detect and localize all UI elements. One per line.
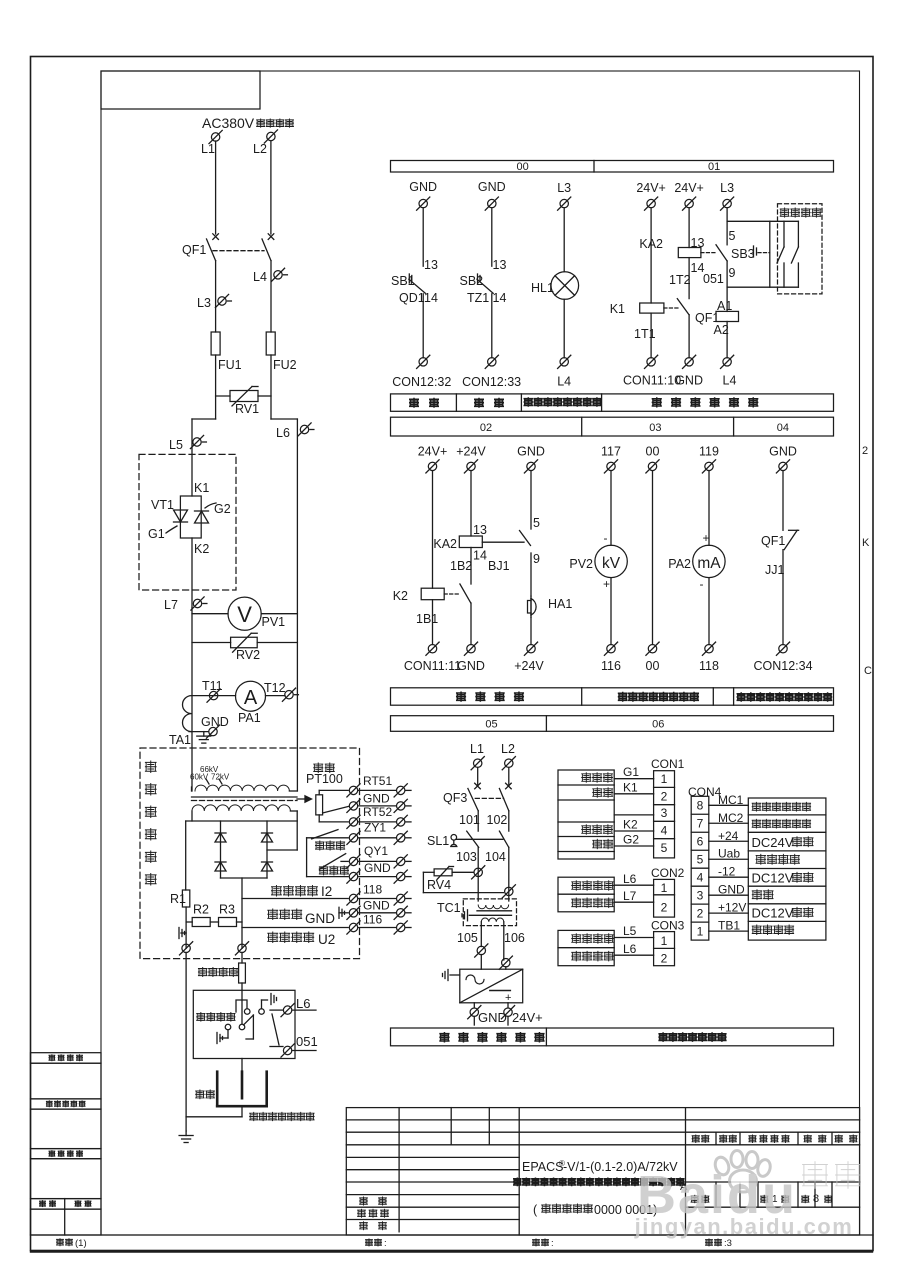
wire FU2 to RV1 node xyxy=(270,355,272,419)
svg-text:TC1: TC1 xyxy=(437,901,461,915)
svg-text:K1: K1 xyxy=(623,781,638,795)
sidebar box row 4 label cell 日期 签字 xyxy=(31,1199,102,1210)
svg-text:EPACS: EPACS xyxy=(522,1160,563,1174)
trigger table A xyxy=(558,770,614,859)
wire FU1 to RV1 node xyxy=(215,355,217,419)
svg-text:HA1: HA1 xyxy=(548,597,572,611)
wire col5 upper xyxy=(688,208,690,248)
svg-text:L2: L2 xyxy=(501,742,515,756)
contact L6 xyxy=(283,1006,291,1014)
svg-text:+: + xyxy=(603,577,610,591)
core arrow to PT100 xyxy=(297,798,305,800)
terminal col1 top xyxy=(419,199,427,207)
title block vertical rules xyxy=(398,1108,400,1232)
svg-text:105: 105 xyxy=(457,931,478,945)
svg-text:8: 8 xyxy=(697,799,704,813)
svg-text:1T2: 1T2 xyxy=(669,273,691,287)
wire col5 mid xyxy=(688,258,690,299)
svg-text:GND: GND xyxy=(769,445,797,459)
bottom strip line xyxy=(31,1234,874,1236)
wire 102 down xyxy=(508,811,510,831)
svg-text:PA1: PA1 xyxy=(238,711,261,725)
svg-text:L1: L1 xyxy=(470,742,484,756)
wire c5 full xyxy=(652,471,654,645)
svg-text:2: 2 xyxy=(862,445,868,457)
terminal col3 top xyxy=(560,199,568,207)
label 取样地 GND xyxy=(268,909,278,920)
svg-text:T11: T11 xyxy=(202,679,223,693)
svg-text:L3: L3 xyxy=(557,181,571,195)
svg-text:SB3: SB3 xyxy=(731,247,755,261)
resistor R2 xyxy=(186,921,192,923)
svg-text:24V+: 24V+ xyxy=(674,181,704,195)
svg-text:K1: K1 xyxy=(194,481,209,495)
relay coil K1 xyxy=(640,303,664,313)
wire 103 down xyxy=(477,847,479,901)
svg-text:RV4: RV4 xyxy=(427,878,451,892)
wire col3 lower xyxy=(563,299,565,358)
svg-text:L5: L5 xyxy=(169,438,183,452)
wire c7 upper xyxy=(782,471,784,531)
svg-text:118: 118 xyxy=(699,659,719,673)
svg-text:01: 01 xyxy=(708,161,720,173)
ammeter PA2 xyxy=(693,545,725,577)
svg-text:-12: -12 xyxy=(718,865,736,879)
label 现场设备示意图 xyxy=(250,1112,258,1121)
wire col4 lower xyxy=(650,313,652,358)
zone bar 02 03 04 xyxy=(391,417,834,436)
wire c6 lower xyxy=(708,578,710,645)
outer border bottom thick edge xyxy=(31,1250,872,1252)
title block label 批准 xyxy=(360,1222,368,1230)
wire L7 con2 xyxy=(614,901,653,903)
switch bracket xyxy=(236,1000,247,1012)
wire col6 lower xyxy=(726,322,728,358)
gas relay vertical link xyxy=(306,838,308,877)
svg-text:L4: L4 xyxy=(723,374,737,388)
svg-text:SL1: SL1 xyxy=(427,834,449,848)
svg-text:RT52: RT52 xyxy=(363,805,392,819)
terminal row 118 xyxy=(349,894,357,902)
title header text 日期 xyxy=(835,1135,842,1143)
thyristor VT1 body xyxy=(180,496,201,538)
TC1 secondary winding xyxy=(481,918,504,922)
primary winding xyxy=(191,787,193,791)
svg-text:L3: L3 xyxy=(197,296,211,310)
svg-text:GND: GND xyxy=(305,911,335,926)
wire 104 down xyxy=(508,847,510,901)
svg-text:06: 06 xyxy=(652,719,664,731)
disconnect switch box 隔离开关 xyxy=(193,990,295,1058)
terminal col5 bottom xyxy=(685,358,693,366)
bridge output wire down xyxy=(241,878,243,948)
svg-text:V: V xyxy=(237,602,252,627)
svg-text:G1: G1 xyxy=(148,527,165,541)
vertical label 硅整流变压器 xyxy=(145,761,156,773)
svg-text:14: 14 xyxy=(424,291,438,305)
svg-text:CON11:10: CON11:10 xyxy=(623,374,681,388)
title header text 签名 xyxy=(804,1135,811,1143)
thyristor block dashed box xyxy=(139,454,236,590)
svg-text:8: 8 xyxy=(813,1193,819,1205)
current transformer TA1 xyxy=(183,696,192,732)
svg-text:1: 1 xyxy=(661,772,668,786)
wire switch to field plates xyxy=(241,1059,243,1072)
secondary left lead and top rail xyxy=(191,811,193,821)
svg-text:GND: GND xyxy=(363,792,390,806)
terminal L2 xyxy=(267,132,275,140)
svg-text:ZY1: ZY1 xyxy=(364,821,386,835)
svg-text:RV2: RV2 xyxy=(236,648,260,662)
svg-text:G2: G2 xyxy=(214,502,231,516)
svg-text:L2: L2 xyxy=(253,142,267,156)
svg-text:24V+: 24V+ xyxy=(636,181,666,195)
silicon rectifier transformer dashed box xyxy=(140,748,360,959)
svg-text:FU1: FU1 xyxy=(218,358,242,372)
svg-text:05: 05 xyxy=(485,719,497,731)
svg-text:CON12:34: CON12:34 xyxy=(753,659,812,673)
description 脉冲信号输入 row1 xyxy=(752,802,760,811)
svg-text:+12V: +12V xyxy=(718,901,746,915)
fuse FU2 xyxy=(266,332,275,355)
damping resistor 阻尼电阻 xyxy=(239,963,246,983)
terminal row RT51 xyxy=(319,789,348,791)
svg-text:118: 118 xyxy=(363,883,382,897)
wire c2 mid xyxy=(470,548,472,585)
description 同步输入 xyxy=(752,925,761,935)
wire c4 upper xyxy=(610,471,612,546)
svg-text:GND: GND xyxy=(457,659,485,673)
svg-text:7: 7 xyxy=(697,816,704,830)
svg-text:I2: I2 xyxy=(321,884,332,899)
terminal row GND sample xyxy=(349,909,357,917)
svg-text:14: 14 xyxy=(473,549,487,563)
title block cell text 标记 xyxy=(691,1195,698,1203)
contact SB3 on col6 xyxy=(716,245,727,261)
svg-text:106: 106 xyxy=(504,931,525,945)
svg-text:1B2: 1B2 xyxy=(450,559,472,573)
wire to terminal 116 xyxy=(242,927,348,929)
label 二次电流 I2 xyxy=(272,885,282,896)
svg-text:RV1: RV1 xyxy=(235,402,259,416)
svg-text:4: 4 xyxy=(697,870,704,884)
bridge bottom rail xyxy=(221,877,268,879)
field plates to ground wire xyxy=(241,1106,243,1117)
wire c7 lower xyxy=(782,550,784,645)
svg-text:116: 116 xyxy=(601,659,621,673)
trigger table B xyxy=(558,877,614,912)
gate G2 lead xyxy=(205,503,216,508)
terminal row QY1 xyxy=(341,860,348,862)
KA2 link dashes xyxy=(701,252,716,254)
title text 单相高低压供电装置高压部分电气原理图A xyxy=(514,1178,521,1186)
wire below QF1 right xyxy=(270,261,272,332)
wire col1 upper xyxy=(422,208,424,266)
svg-text:K2: K2 xyxy=(623,818,638,832)
svg-text:GND: GND xyxy=(201,715,229,729)
title block horizontal rules top rows xyxy=(346,1119,859,1121)
terminal col3 bottom xyxy=(560,358,568,366)
secondary right lead xyxy=(296,811,298,850)
svg-text:K2: K2 xyxy=(393,589,408,603)
wire VT1 to L7 xyxy=(191,538,193,608)
wire col5 lower xyxy=(688,315,690,358)
svg-text:119: 119 xyxy=(699,445,719,459)
relay KA2 section2 xyxy=(459,536,482,548)
electric field plates 电场 xyxy=(196,1090,204,1099)
interlock loop wire xyxy=(769,221,771,287)
oil temperature sensor PT100 xyxy=(314,763,323,773)
wire 101 down xyxy=(477,811,479,831)
svg-text:2: 2 xyxy=(661,952,668,966)
svg-text:24V+: 24V+ xyxy=(418,445,448,459)
svg-text:3: 3 xyxy=(697,888,704,902)
damping wire out of box xyxy=(241,953,243,964)
bottom strip text 制图: xyxy=(366,1239,373,1246)
voltmeter PV2 xyxy=(595,545,627,577)
terminal row GND gas xyxy=(307,876,349,878)
breaker coil QF1 xyxy=(716,311,739,321)
terminal row RT52 xyxy=(319,821,348,823)
baidu watermark paw and wordmark xyxy=(634,1151,861,1240)
title header text 更改单号 xyxy=(749,1135,756,1143)
wire L5 con3 xyxy=(614,937,653,939)
bridge right leg with diodes xyxy=(266,821,268,878)
wire col4 upper xyxy=(650,208,652,303)
svg-text:(1): (1) xyxy=(75,1238,87,1249)
safety interlock dashed box 安全连锁 xyxy=(778,204,823,294)
svg-text:4: 4 xyxy=(661,823,668,837)
varistor RV4 xyxy=(474,868,482,876)
svg-text:QF1: QF1 xyxy=(761,534,785,548)
terminal col5 top xyxy=(685,199,693,207)
svg-text:2: 2 xyxy=(661,901,668,915)
svg-text:L5: L5 xyxy=(623,924,637,938)
heavy gas switch 重瓦斯 xyxy=(307,837,349,839)
svg-text:72kV: 72kV xyxy=(211,773,230,782)
wire L2 down xyxy=(270,141,272,234)
terminal L4 xyxy=(274,271,282,279)
svg-text:AC380V: AC380V xyxy=(202,115,255,131)
SL1 wire to contact 104 xyxy=(457,838,503,840)
svg-text:L4: L4 xyxy=(253,270,267,284)
svg-text:VT1: VT1 xyxy=(151,498,174,512)
bottom strip text 描图: xyxy=(533,1239,540,1246)
sidebar box row 3 label cell xyxy=(31,1149,102,1159)
box bottom terminal left xyxy=(182,944,190,952)
fuse FU1 xyxy=(211,332,220,355)
switch left earth leg xyxy=(227,1030,229,1038)
svg-text:5: 5 xyxy=(697,852,704,866)
wire c6 upper xyxy=(708,471,710,546)
svg-text:L6: L6 xyxy=(623,872,637,886)
interlock bottom rail xyxy=(727,286,798,288)
svg-text:9: 9 xyxy=(729,266,736,280)
section2 bottom terminals xyxy=(428,645,436,653)
svg-text:051: 051 xyxy=(296,1034,318,1049)
terminal 106 xyxy=(502,959,510,967)
wire G1 xyxy=(614,778,653,780)
svg-text:13: 13 xyxy=(424,258,438,272)
wire L6 con3 xyxy=(614,954,653,956)
RV4 lower terminal xyxy=(505,887,513,895)
svg-text:CON1: CON1 xyxy=(651,757,685,771)
title block outline xyxy=(346,1108,859,1235)
contact 104 xyxy=(499,831,508,847)
svg-text:+: + xyxy=(703,531,710,545)
svg-text:TZ1: TZ1 xyxy=(467,291,489,305)
svg-text:L4: L4 xyxy=(557,375,571,389)
svg-text:R3: R3 xyxy=(219,903,235,917)
svg-text:L3: L3 xyxy=(720,181,734,195)
svg-text:1: 1 xyxy=(661,881,668,895)
wire c1 to K2 xyxy=(432,471,434,589)
svg-text:5: 5 xyxy=(729,229,736,243)
signal description box xyxy=(748,798,826,940)
svg-text:+24V: +24V xyxy=(456,445,486,459)
svg-text:1B1: 1B1 xyxy=(416,612,438,626)
tap ticks xyxy=(206,779,209,784)
svg-text:mA: mA xyxy=(697,555,721,572)
svg-text:K: K xyxy=(862,537,870,549)
inner drawing frame xyxy=(101,71,860,1235)
thyristor VT1 left element xyxy=(174,510,188,522)
wire L1 down xyxy=(215,141,217,234)
contact 103 xyxy=(467,831,479,847)
svg-text:2: 2 xyxy=(697,906,704,920)
svg-text:GND: GND xyxy=(478,1010,507,1025)
description 一次电压 xyxy=(756,854,765,864)
caption bar 启动 停止 主断路器合闸指示 高压紧急停止 xyxy=(391,394,834,411)
zone bar 00 01 xyxy=(391,161,834,173)
svg-text:1T1: 1T1 xyxy=(634,327,656,341)
svg-text:+24V: +24V xyxy=(514,659,544,673)
wires to QF3 xyxy=(477,768,479,787)
svg-text:CON12:32: CON12:32 xyxy=(392,375,451,389)
svg-text:5: 5 xyxy=(661,841,668,855)
svg-text:L6: L6 xyxy=(276,426,290,440)
indicator lamp HL1 xyxy=(551,272,579,300)
svg-text:-: - xyxy=(700,577,704,591)
svg-text:L1: L1 xyxy=(201,142,215,156)
svg-text:6: 6 xyxy=(697,834,704,848)
wire K1 xyxy=(614,793,653,795)
title block label 工艺 xyxy=(360,1197,368,1205)
svg-text:K1: K1 xyxy=(610,302,625,316)
svg-text:FU2: FU2 xyxy=(273,358,297,372)
resistor R3 xyxy=(210,921,218,923)
svg-text:13: 13 xyxy=(473,523,487,537)
svg-text:L7: L7 xyxy=(623,889,637,903)
sidebar label 底图总号 xyxy=(49,1150,55,1156)
title block cell text 第1张 xyxy=(761,1195,768,1203)
TC1 core lines xyxy=(477,910,512,912)
terminal row 116 xyxy=(349,923,357,931)
varistor RV1 xyxy=(216,395,230,397)
svg-text:03: 03 xyxy=(649,422,661,434)
wire c4 lower xyxy=(610,578,612,645)
description 接地 xyxy=(752,890,761,900)
trigger table C xyxy=(558,930,614,965)
svg-text:CON2: CON2 xyxy=(651,866,685,880)
svg-text:QY1: QY1 xyxy=(364,844,388,858)
ground symbol below TA1 wire xyxy=(203,732,205,737)
top-left revision box xyxy=(101,71,260,109)
svg-text:TA1: TA1 xyxy=(169,733,191,747)
svg-text:DC24V: DC24V xyxy=(752,835,794,850)
bottom strip text 格式(1) xyxy=(57,1239,64,1246)
buzzer HA1 xyxy=(530,596,532,600)
terminal col6 top xyxy=(723,199,731,207)
svg-text:HL1: HL1 xyxy=(531,281,554,295)
KA2 to alarm contact wire xyxy=(482,541,524,543)
wire c2 to KA2 xyxy=(470,471,472,536)
ammeter PA1 xyxy=(236,681,266,711)
breaker QF3 xyxy=(475,783,481,789)
TC1 primary winding xyxy=(478,905,508,909)
sidebar box row 2 blank cell xyxy=(31,1109,102,1149)
svg-text:102: 102 xyxy=(487,813,508,827)
title header text 标记 xyxy=(692,1135,699,1143)
bridge left leg with diodes xyxy=(220,821,222,878)
sidebar box row 1 blank cell xyxy=(31,1063,102,1099)
switch right cap leg xyxy=(261,1000,263,1009)
contact 051 xyxy=(283,1046,291,1054)
secondary winding xyxy=(192,805,290,811)
svg-text:U2: U2 xyxy=(318,932,335,947)
thyristor VT1 right element xyxy=(195,511,209,523)
TC1 shield earth xyxy=(467,910,469,921)
svg-text:C: C xyxy=(864,665,872,677)
svg-text::3: :3 xyxy=(724,1238,732,1249)
svg-text:BJ1: BJ1 xyxy=(488,559,510,573)
svg-text:14: 14 xyxy=(493,291,507,305)
terminal col4 top xyxy=(647,199,655,207)
main ground xyxy=(185,1117,187,1131)
converter earth stub xyxy=(450,974,460,976)
AC DC converter xyxy=(460,969,523,1003)
svg-text:G2: G2 xyxy=(623,833,639,847)
switch blade xyxy=(244,1015,254,1025)
svg-text:GND: GND xyxy=(409,180,437,194)
switch center wire xyxy=(241,990,243,1023)
label 二次电压 U2 xyxy=(268,932,278,943)
terminal col6 bottom xyxy=(723,358,731,366)
svg-text:Uab: Uab xyxy=(718,847,740,861)
switch contact circles xyxy=(239,1024,245,1030)
contact K1 on col5 xyxy=(677,299,689,315)
relay coil K2 xyxy=(421,588,444,600)
svg-text:MC1: MC1 xyxy=(718,793,744,807)
interlock top rail xyxy=(727,220,798,222)
svg-text:103: 103 xyxy=(456,850,477,864)
svg-text:PV1: PV1 xyxy=(262,615,286,629)
converter outputs xyxy=(473,1003,475,1008)
gate G1 lead xyxy=(166,526,177,533)
wire below QF1 left xyxy=(215,261,217,332)
svg-text:T12: T12 xyxy=(264,681,286,695)
svg-text:CON12:33: CON12:33 xyxy=(462,375,521,389)
sidebar box row 3 blank cell xyxy=(31,1159,102,1199)
K1 link dashes xyxy=(664,307,679,309)
svg-text:04: 04 xyxy=(777,422,789,434)
svg-text:02: 02 xyxy=(480,422,492,434)
svg-text:1: 1 xyxy=(661,934,668,948)
svg-text:+24: +24 xyxy=(718,829,739,843)
contact on c3 pins 5 9 xyxy=(530,471,532,529)
svg-text:L7: L7 xyxy=(164,598,178,612)
K2 link dashes xyxy=(444,593,459,595)
